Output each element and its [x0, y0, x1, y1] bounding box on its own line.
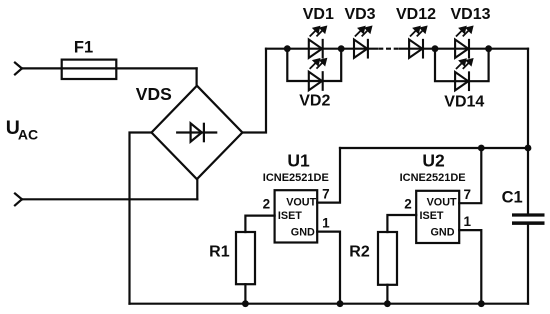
LED VD2: [309, 59, 326, 90]
wire VD14 parallel branch: [435, 49, 489, 81]
wire R2 to ground: [386, 285, 388, 304]
svg-text:ISET: ISET: [278, 210, 302, 222]
svg-text:VD2: VD2: [299, 93, 330, 110]
op-amp U1 box: [275, 190, 318, 242]
node junction VD13 right: [485, 45, 492, 52]
svg-text:VDS: VDS: [136, 84, 172, 104]
wire ground bottom rail: [130, 303, 529, 305]
svg-text:R2: R2: [349, 243, 370, 260]
node junction U2 ground: [478, 300, 485, 307]
LED VD3: [354, 27, 371, 58]
svg-text:R1: R1: [209, 244, 230, 261]
resistor R1: [236, 232, 255, 284]
wire U2 pin7: [459, 148, 481, 203]
diode inside bridge: [177, 123, 216, 141]
wire bridge right vertex up to top rail: [242, 49, 266, 133]
wire U1 pin7: [317, 148, 340, 203]
node junction VOUT rail right: [525, 145, 532, 152]
svg-text:U1: U1: [287, 151, 310, 171]
wire top input to bridge: [22, 67, 196, 69]
svg-text:F1: F1: [74, 38, 93, 56]
wire U1 pin1 to ground: [317, 232, 340, 304]
node junction R1 ground: [242, 300, 249, 307]
fuse F1: [62, 60, 117, 79]
LED VD14: [455, 59, 472, 90]
svg-text:VD1: VD1: [303, 6, 334, 23]
svg-text:7: 7: [322, 187, 330, 202]
wire R1 to ground: [244, 284, 246, 304]
wire fuse line down to bridge top vertex: [196, 68, 198, 85]
wire top LED rail left part: [266, 48, 377, 50]
svg-text:C1: C1: [502, 189, 523, 207]
svg-text:1: 1: [322, 215, 330, 230]
svg-text:7: 7: [464, 187, 472, 202]
capacitor C1: [512, 215, 545, 223]
wire right vertical rail: [527, 49, 529, 214]
wire U1 pin2 to R1: [245, 216, 274, 232]
wire dashed continuation: [378, 48, 399, 50]
wire U2 pin1 to ground: [459, 230, 481, 304]
LED VD13: [455, 27, 472, 58]
svg-text:GND: GND: [291, 227, 315, 239]
svg-text:1: 1: [464, 214, 472, 229]
svg-text:ISET: ISET: [420, 210, 444, 222]
svg-text:GND: GND: [431, 227, 455, 239]
wire VD2 parallel branch: [287, 49, 341, 81]
svg-text:VD3: VD3: [344, 6, 375, 23]
node junction VD1 right: [338, 45, 345, 52]
wire bridge left vertex to ground rail: [130, 133, 152, 304]
resistor R2: [378, 232, 397, 285]
node junction R2 ground: [384, 300, 391, 307]
wire bottom input: [22, 198, 197, 200]
svg-text:ICNE2521DE: ICNE2521DE: [263, 172, 329, 184]
svg-text:ICNE2521DE: ICNE2521DE: [400, 172, 466, 184]
wire C1 to ground rail: [527, 225, 529, 304]
svg-text:VOUT: VOUT: [286, 197, 316, 209]
wire top LED rail right part: [400, 48, 528, 50]
node junction U1 ground: [337, 300, 344, 307]
node junction VD13 left: [432, 45, 439, 52]
LED VD1: [309, 27, 326, 58]
svg-text:VD13: VD13: [450, 6, 490, 23]
wire U2 pin2 to R2: [387, 215, 416, 232]
bridge rectifier VDS diamond: [152, 86, 243, 180]
terminal input top: [15, 63, 22, 75]
wire VOUT rail: [340, 147, 528, 149]
svg-text:VD12: VD12: [396, 6, 436, 23]
svg-text:VD14: VD14: [444, 94, 484, 111]
svg-text:VOUT: VOUT: [427, 197, 457, 209]
node junction VOUT rail U2: [478, 145, 485, 152]
terminal input bottom: [15, 194, 22, 206]
svg-text:AC: AC: [18, 126, 38, 142]
node junction VD1 left: [284, 45, 291, 52]
label UAC: [6, 117, 38, 142]
wire bridge bottom vertex to lower input: [196, 179, 198, 199]
svg-text:2: 2: [263, 197, 271, 212]
LED VD12: [409, 27, 426, 58]
op-amp U2 box: [416, 191, 459, 243]
svg-text:U2: U2: [422, 151, 445, 171]
svg-text:2: 2: [404, 196, 412, 211]
